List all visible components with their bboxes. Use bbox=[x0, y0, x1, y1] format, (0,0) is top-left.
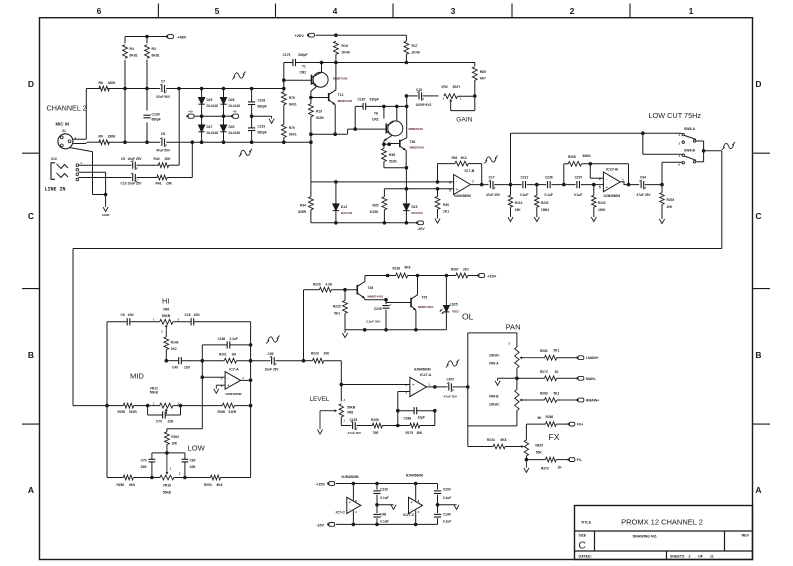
svg-text:-4V: -4V bbox=[233, 110, 237, 114]
svg-text:33N: 33N bbox=[141, 465, 148, 469]
svg-text:R19: R19 bbox=[316, 109, 322, 113]
resistor R19 bbox=[310, 98, 312, 104]
svg-text:LOW: LOW bbox=[188, 444, 206, 453]
svg-text:R4: R4 bbox=[130, 47, 134, 51]
svg-text:NJM4580M: NJM4580M bbox=[604, 194, 621, 198]
node pan center bbox=[515, 377, 519, 381]
svg-text:IC7-B: IC7-B bbox=[465, 169, 475, 173]
svg-text:T25: T25 bbox=[422, 296, 428, 300]
ground decouple left bbox=[377, 504, 394, 506]
svg-text:SHEETS: SHEETS bbox=[670, 555, 685, 559]
potentiometer VR25 FX bbox=[524, 440, 528, 456]
node decouple mid left bbox=[375, 503, 379, 507]
svg-text:R203: R203 bbox=[667, 198, 675, 202]
svg-text:-15V: -15V bbox=[316, 524, 324, 528]
node LOW input bbox=[165, 451, 169, 455]
svg-text:-: - bbox=[349, 507, 350, 511]
svg-text:50KB: 50KB bbox=[163, 491, 172, 495]
svg-text:FX-: FX- bbox=[577, 458, 582, 462]
resistor R225 bbox=[344, 290, 346, 301]
svg-text:D29: D29 bbox=[207, 98, 213, 102]
svg-text:6K8: 6K8 bbox=[501, 438, 507, 442]
potentiometer VR2 GAIN bbox=[444, 94, 458, 99]
svg-text:50KB: 50KB bbox=[150, 391, 159, 395]
svg-text:MID: MID bbox=[130, 372, 144, 381]
svg-text:R226: R226 bbox=[393, 267, 401, 271]
svg-text:HI: HI bbox=[162, 297, 170, 306]
resistor R85 bbox=[472, 67, 477, 81]
resistor R229 bbox=[304, 360, 313, 362]
svg-text:R40: R40 bbox=[154, 157, 160, 161]
wire upper mic rail bbox=[86, 88, 100, 90]
node upper rail junctions bbox=[177, 87, 181, 91]
svg-text:DL4148: DL4148 bbox=[229, 131, 241, 135]
wiper VR9-A bbox=[522, 357, 545, 359]
resistor R230 bbox=[319, 287, 331, 292]
svg-text:680pF: 680pF bbox=[258, 105, 267, 109]
svg-text:0.1uF: 0.1uF bbox=[443, 520, 451, 524]
svg-text:T36: T36 bbox=[410, 140, 416, 144]
svg-text:IC27-A: IC27-A bbox=[420, 373, 432, 377]
svg-text:6: 6 bbox=[97, 6, 102, 16]
capacitor C125 bbox=[352, 422, 354, 429]
svg-text:IC7-A: IC7-A bbox=[229, 367, 239, 371]
svg-text:C187: C187 bbox=[358, 97, 366, 101]
svg-text:R16: R16 bbox=[342, 44, 348, 48]
svg-text:RMAIN+: RMAIN+ bbox=[586, 399, 599, 403]
svg-text:R275: R275 bbox=[406, 431, 414, 435]
svg-text:C: C bbox=[579, 541, 586, 552]
svg-text:D30: D30 bbox=[229, 125, 235, 129]
svg-text:C70: C70 bbox=[156, 419, 162, 423]
resistor R40 bbox=[158, 163, 168, 168]
svg-text:10uF 25V: 10uF 25V bbox=[128, 181, 143, 185]
diode D28 bbox=[223, 89, 225, 98]
svg-text:T1: T1 bbox=[302, 65, 306, 69]
resistor R202 bbox=[166, 429, 168, 432]
wire diode mid row bbox=[194, 115, 201, 117]
potentiometer VR18 LOW bbox=[166, 453, 168, 473]
svg-text:6K8: 6K8 bbox=[405, 265, 411, 269]
svg-text:DL4148: DL4148 bbox=[229, 104, 241, 108]
wire T36 collector bus bbox=[406, 96, 408, 107]
svg-text:DL4148: DL4148 bbox=[207, 131, 219, 135]
svg-text:PAN: PAN bbox=[506, 323, 521, 332]
wire T8 base bbox=[348, 128, 387, 130]
svg-text:1: 1 bbox=[689, 6, 694, 16]
svg-text:C8: C8 bbox=[161, 132, 165, 136]
svg-text:5K1: 5K1 bbox=[554, 349, 560, 353]
capacitor C95 bbox=[251, 360, 271, 362]
svg-text:CR2: CR2 bbox=[300, 71, 307, 75]
node EQ input bbox=[105, 404, 109, 408]
jack X13 bbox=[51, 163, 55, 180]
resistor R226 bbox=[396, 273, 408, 278]
capacitor C231 bbox=[522, 181, 524, 188]
svg-text:+: + bbox=[456, 188, 458, 192]
svg-text:SW8-B: SW8-B bbox=[684, 149, 695, 153]
svg-text:C175: C175 bbox=[283, 53, 291, 57]
svg-text:5K1: 5K1 bbox=[334, 312, 340, 316]
svg-text:+: + bbox=[606, 185, 608, 189]
svg-text:NJM4580M: NJM4580M bbox=[342, 475, 359, 479]
node C187 bus bbox=[382, 105, 386, 109]
transistor T26 bbox=[356, 285, 358, 295]
resistor R79 bbox=[283, 116, 285, 124]
svg-text:R230: R230 bbox=[313, 283, 321, 287]
wire long top bus to R85 bbox=[406, 62, 474, 64]
svg-text:A: A bbox=[755, 485, 761, 495]
wire T8 emitter bbox=[384, 136, 392, 141]
svg-text:2.2uF: 2.2uF bbox=[230, 337, 238, 341]
svg-text:C307: C307 bbox=[447, 377, 455, 381]
wire level input bbox=[304, 360, 342, 362]
svg-text:6K8: 6K8 bbox=[129, 483, 135, 487]
capacitor C175 bbox=[292, 59, 294, 66]
svg-text:180K: 180K bbox=[108, 135, 117, 139]
svg-text:R208: R208 bbox=[568, 155, 576, 159]
wire switch common bbox=[703, 141, 705, 162]
ground FX pot bbox=[525, 460, 527, 468]
ground decouple right bbox=[438, 504, 457, 506]
svg-text:R149: R149 bbox=[171, 340, 179, 344]
node fb bottom bbox=[396, 424, 400, 428]
svg-text:C: C bbox=[28, 211, 34, 221]
node level bbox=[340, 383, 344, 387]
svg-text:R30: R30 bbox=[443, 203, 449, 207]
svg-text:100K: 100K bbox=[598, 208, 606, 212]
resistor R3 bbox=[145, 45, 150, 59]
svg-text:+: + bbox=[411, 500, 413, 504]
svg-text:B: B bbox=[28, 350, 34, 360]
svg-text:MIC IN: MIC IN bbox=[56, 122, 70, 127]
svg-text:R85: R85 bbox=[480, 70, 486, 74]
capacitor C49 bbox=[178, 357, 180, 364]
svg-text:R199: R199 bbox=[371, 418, 379, 422]
node MID pot left bbox=[146, 404, 150, 408]
svg-text:R286: R286 bbox=[546, 415, 554, 419]
capacitor C7 bbox=[161, 85, 163, 92]
svg-text:502Y: 502Y bbox=[453, 85, 462, 89]
wire line lower row bbox=[79, 177, 132, 179]
svg-text:+: + bbox=[227, 384, 229, 388]
wire OL bottom rail bbox=[345, 329, 446, 331]
svg-text:-: - bbox=[227, 376, 228, 380]
wire T8 collector bbox=[396, 106, 398, 121]
svg-text:1M: 1M bbox=[232, 353, 237, 357]
svg-text:SIZE: SIZE bbox=[579, 534, 587, 538]
wire R38 to emitter rail bbox=[384, 167, 407, 169]
svg-text:2: 2 bbox=[689, 555, 691, 559]
svg-text:6K81: 6K81 bbox=[130, 54, 138, 58]
node MID pot right bbox=[179, 404, 183, 408]
svg-text:R280: R280 bbox=[117, 483, 125, 487]
svg-text:33N: 33N bbox=[190, 465, 197, 469]
svg-text:D14: D14 bbox=[341, 205, 347, 209]
capacitor C10 bbox=[132, 174, 134, 181]
svg-text:-20V: -20V bbox=[417, 227, 425, 231]
capacitor C218 bbox=[251, 89, 253, 102]
svg-text:8.25K: 8.25K bbox=[370, 210, 379, 214]
svg-text:RED: RED bbox=[452, 309, 459, 313]
svg-text:C218: C218 bbox=[258, 99, 266, 103]
svg-text:6M04: 6M04 bbox=[583, 154, 591, 158]
sine icon mic lower bbox=[240, 150, 250, 155]
svg-text:C79: C79 bbox=[141, 458, 147, 462]
XLR connector X1 bbox=[58, 134, 73, 149]
resistor R81 feedback bbox=[437, 164, 439, 182]
resistor R203 bbox=[661, 185, 663, 193]
wire C15 row bbox=[406, 95, 417, 97]
svg-text:LOW CUT 75Hz: LOW CUT 75Hz bbox=[649, 111, 702, 120]
capacitor C17 bbox=[489, 181, 491, 188]
svg-text:R260: R260 bbox=[218, 410, 226, 414]
capacitor C186 bbox=[201, 345, 203, 361]
svg-text:+4V: +4V bbox=[188, 110, 193, 114]
svg-text:VR25: VR25 bbox=[535, 444, 543, 448]
svg-text:0.1uF: 0.1uF bbox=[380, 496, 388, 500]
svg-text:C226: C226 bbox=[374, 307, 382, 311]
diode D15 bbox=[405, 202, 407, 204]
svg-text:6K8: 6K8 bbox=[217, 483, 223, 487]
connector +4V bbox=[188, 114, 194, 118]
potentiometer VR9-A bbox=[515, 347, 519, 368]
wire +20V rail top bbox=[316, 34, 407, 36]
svg-text:-: - bbox=[411, 507, 412, 511]
svg-text:0.1uF: 0.1uF bbox=[380, 520, 388, 524]
resistor R260 bbox=[222, 403, 234, 408]
svg-text:1000P 6V3: 1000P 6V3 bbox=[416, 103, 432, 107]
svg-text:47uF 25V: 47uF 25V bbox=[486, 193, 501, 197]
resistor R9 bbox=[99, 140, 109, 145]
sine icon lowcut out bbox=[723, 143, 733, 148]
node lower rail junctions bbox=[191, 140, 195, 144]
svg-text:910R: 910R bbox=[229, 410, 237, 414]
svg-text:330pF: 330pF bbox=[298, 53, 308, 57]
ground IC7-A pin3 bbox=[216, 384, 225, 386]
wire C175 left drop bbox=[283, 63, 285, 89]
svg-text:C10: C10 bbox=[121, 181, 127, 185]
svg-text:R234: R234 bbox=[487, 438, 495, 442]
op-amp IC7-B bbox=[454, 175, 471, 195]
wire collector bus y62 bbox=[298, 62, 475, 64]
wire MID feedback row bbox=[165, 359, 169, 363]
svg-text:C48: C48 bbox=[380, 512, 386, 516]
sine icon preamp out bbox=[486, 157, 496, 162]
svg-text:CHANNEL 2: CHANNEL 2 bbox=[47, 104, 87, 113]
potentiometer VR6 HI bbox=[160, 319, 173, 324]
wire line upper row bbox=[79, 164, 132, 166]
potentiometer VR9-B bbox=[515, 389, 519, 410]
resistor R41 bbox=[157, 175, 167, 180]
wire T1 base bbox=[284, 79, 312, 81]
svg-text:C236: C236 bbox=[545, 176, 553, 180]
svg-text:5: 5 bbox=[599, 186, 601, 190]
svg-text:5: 5 bbox=[449, 188, 451, 192]
svg-text:0.1uF: 0.1uF bbox=[574, 193, 582, 197]
resistor R231 bbox=[536, 185, 538, 196]
svg-text:C15: C15 bbox=[416, 88, 422, 92]
wire HI row bbox=[107, 321, 127, 323]
svg-text:R78: R78 bbox=[289, 96, 295, 100]
svg-text:C49: C49 bbox=[172, 366, 178, 370]
wire level bottom row bbox=[341, 425, 351, 427]
svg-text:R3: R3 bbox=[152, 47, 156, 51]
svg-text:50K: 50K bbox=[536, 451, 543, 455]
svg-text:BAV103: BAV103 bbox=[412, 211, 423, 215]
svg-text:47uF 25V: 47uF 25V bbox=[444, 395, 459, 399]
svg-text:R232: R232 bbox=[598, 201, 606, 205]
ground AGND bbox=[105, 205, 107, 207]
svg-text:C125: C125 bbox=[350, 418, 358, 422]
wire OL top rail bbox=[365, 275, 396, 277]
svg-text:NJM4580M: NJM4580M bbox=[414, 368, 431, 372]
wire MID row bbox=[107, 405, 123, 407]
svg-text:X13: X13 bbox=[51, 157, 57, 161]
svg-text:6K: 6K bbox=[538, 416, 543, 420]
svg-text:5K1: 5K1 bbox=[554, 392, 560, 396]
wire EQ right rail bbox=[250, 322, 252, 478]
svg-text:11: 11 bbox=[710, 555, 714, 559]
ground diode network bbox=[271, 116, 273, 119]
svg-text:6K81: 6K81 bbox=[152, 54, 160, 58]
svg-text:OF: OF bbox=[698, 555, 704, 559]
wire MID band to R202 bbox=[167, 428, 202, 430]
diode D30 bbox=[223, 116, 225, 125]
svg-text:D: D bbox=[28, 79, 34, 89]
svg-text:T8: T8 bbox=[374, 112, 378, 116]
wire signal to IC7-B bbox=[311, 181, 454, 183]
wire IC27-B output bbox=[620, 182, 639, 185]
resistor R34 bbox=[310, 182, 312, 197]
svg-text:2K49: 2K49 bbox=[412, 51, 420, 55]
resistor R30 bbox=[437, 189, 439, 197]
connector +20V right bbox=[479, 274, 485, 278]
svg-text:GAIN: GAIN bbox=[456, 117, 472, 124]
svg-text:C231: C231 bbox=[521, 176, 529, 180]
wire LOW row bbox=[107, 477, 123, 479]
wire R230 drop bbox=[303, 290, 305, 361]
svg-text:VR9-A: VR9-A bbox=[489, 362, 499, 366]
capacitor C15 bbox=[418, 92, 420, 99]
svg-text:FX+: FX+ bbox=[577, 422, 583, 426]
wire main vertical to opamp bbox=[310, 142, 312, 182]
svg-text:MMBTA06: MMBTA06 bbox=[333, 77, 348, 81]
svg-text:C237: C237 bbox=[575, 176, 583, 180]
svg-text:47uF 25V: 47uF 25V bbox=[637, 193, 652, 197]
capacitor C307 bbox=[448, 383, 450, 390]
resistor R282 bbox=[545, 355, 557, 360]
capacitor C8 bbox=[161, 139, 163, 146]
svg-text:680pF: 680pF bbox=[152, 118, 161, 122]
svg-text:22pF: 22pF bbox=[418, 415, 425, 419]
svg-text:R17: R17 bbox=[412, 44, 418, 48]
capacitor C80 bbox=[184, 453, 186, 459]
ground pan center bbox=[497, 378, 499, 380]
svg-text:7: 7 bbox=[472, 180, 474, 184]
wire XLR shell ground bbox=[70, 148, 93, 152]
svg-text:22N: 22N bbox=[168, 419, 175, 423]
svg-text:C7: C7 bbox=[161, 80, 165, 84]
svg-text:VR6: VR6 bbox=[163, 308, 170, 312]
transistor T8 bbox=[388, 121, 403, 136]
svg-text:BAV103: BAV103 bbox=[341, 211, 352, 215]
svg-text:1K1: 1K1 bbox=[443, 209, 449, 213]
resistor R17 bbox=[405, 35, 407, 41]
capacitor C48 bbox=[376, 505, 378, 513]
connector R MAIN+ bbox=[578, 398, 584, 402]
wire XLR pin3 to upper rail bbox=[85, 89, 87, 140]
resistor R208 feedback bbox=[563, 164, 565, 185]
resistor R232 bbox=[593, 185, 595, 196]
svg-text:R8: R8 bbox=[99, 81, 103, 85]
svg-text:R79: R79 bbox=[289, 126, 295, 130]
svg-text:6: 6 bbox=[599, 177, 601, 181]
svg-text:FX: FX bbox=[549, 432, 560, 442]
svg-text:C200: C200 bbox=[443, 488, 451, 492]
svg-text:VR8: VR8 bbox=[347, 411, 353, 415]
capacitor C219 bbox=[251, 116, 253, 128]
capacitor C199 bbox=[437, 505, 439, 513]
capacitor C268 bbox=[397, 411, 399, 426]
capacitor C16 bbox=[190, 318, 192, 325]
zone ticks top bbox=[157, 4, 159, 18]
svg-text:IC7-C: IC7-C bbox=[336, 511, 346, 515]
wire EQ left rail bbox=[106, 322, 108, 478]
transistor T25 bbox=[385, 300, 387, 303]
svg-text:47uF 50V: 47uF 50V bbox=[156, 149, 171, 153]
diode D29 bbox=[201, 89, 203, 98]
node mid branch bbox=[201, 359, 205, 363]
svg-text:VR18: VR18 bbox=[163, 483, 171, 487]
node lowcut input bbox=[509, 183, 513, 187]
wire lower mic rail bbox=[108, 141, 160, 143]
resistor R234 bbox=[493, 444, 505, 449]
svg-text:LMAIN+: LMAIN+ bbox=[586, 356, 599, 360]
connector -15V bbox=[329, 523, 335, 527]
wire T1 emitter to node bbox=[311, 86, 317, 97]
svg-text:510K: 510K bbox=[389, 159, 398, 163]
svg-text:VR2: VR2 bbox=[441, 85, 448, 89]
op-amp IC7-A bbox=[201, 361, 203, 378]
svg-text:15M4: 15M4 bbox=[541, 208, 549, 212]
capacitor C236 bbox=[547, 181, 549, 188]
svg-text:C95: C95 bbox=[267, 352, 273, 356]
svg-text:C17: C17 bbox=[489, 176, 495, 180]
svg-text:2K2: 2K2 bbox=[463, 267, 469, 271]
svg-text:R229: R229 bbox=[311, 352, 319, 356]
svg-text:20K: 20K bbox=[165, 157, 172, 161]
svg-text:MMBT4401: MMBT4401 bbox=[418, 305, 434, 309]
svg-text:C16: C16 bbox=[185, 313, 191, 317]
ground R232 bbox=[591, 217, 596, 222]
svg-text:180K: 180K bbox=[108, 81, 117, 85]
svg-text:+: + bbox=[349, 500, 351, 504]
potentiometer VR12 MID bbox=[160, 403, 173, 408]
zone ticks right bbox=[753, 152, 771, 154]
transistor T36 bbox=[399, 140, 401, 148]
capacitor C6 bbox=[126, 318, 128, 325]
svg-text:C219: C219 bbox=[258, 125, 266, 129]
svg-text:NJM4580M: NJM4580M bbox=[226, 392, 242, 396]
svg-text:R231: R231 bbox=[541, 201, 549, 205]
svg-text:C6: C6 bbox=[121, 313, 125, 317]
PAN box bbox=[466, 385, 470, 389]
svg-text:IC27-C: IC27-C bbox=[403, 513, 415, 517]
resistor R280 bbox=[123, 475, 133, 480]
svg-text:C9: C9 bbox=[121, 157, 125, 161]
wire lowcut bypass top bbox=[510, 133, 512, 184]
